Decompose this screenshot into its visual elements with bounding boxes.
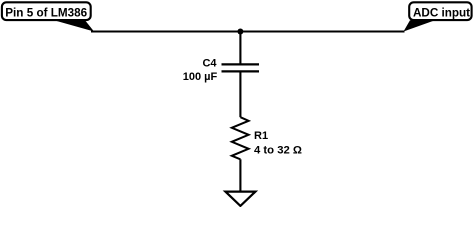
net flag "ADC input" <box>404 2 472 31</box>
wire: R1 to ground <box>239 159 241 191</box>
wire: C4 to R1 <box>239 71 241 117</box>
ground <box>225 192 255 206</box>
svg-text:ADC input: ADC input <box>413 7 470 20</box>
wire: main horizontal net <box>91 30 405 32</box>
svg-text:Pin 5 of LM386: Pin 5 of LM386 <box>5 7 87 20</box>
svg-text:100 µF: 100 µF <box>183 71 218 83</box>
capacitor C4 <box>222 64 260 71</box>
wire: node to C4 <box>239 32 241 65</box>
svg-text:4 to 32 Ω: 4 to 32 Ω <box>254 144 302 156</box>
resistor R1 <box>232 117 249 159</box>
junction node <box>237 29 243 35</box>
svg-text:C4: C4 <box>202 58 217 70</box>
net flag "Pin 5 of LM386" <box>2 2 94 31</box>
svg-text:R1: R1 <box>254 130 268 142</box>
